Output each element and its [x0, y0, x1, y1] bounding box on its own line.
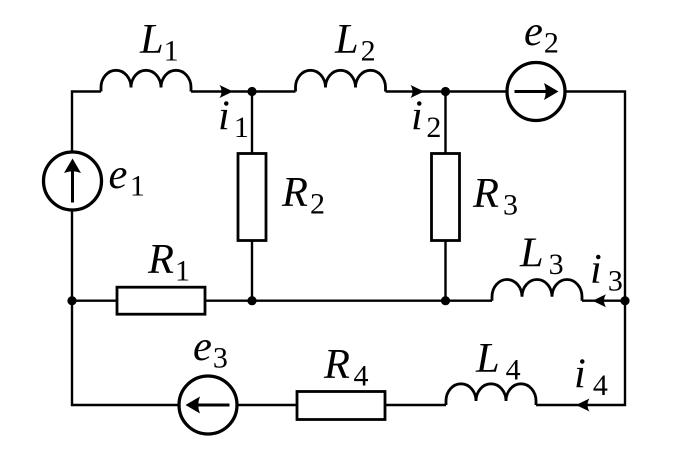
arrowhead i3: [593, 294, 607, 307]
inductor L2: [296, 70, 386, 91]
source e2 arrow: [515, 83, 559, 100]
node dot mid below R3: [441, 296, 450, 305]
wire: R3 branch lower: [444, 241, 446, 301]
inductor L4: [446, 384, 536, 405]
wire top: left corner to L1: [72, 92, 101, 153]
node dot mid-left: [67, 296, 76, 305]
wire: L2 to node B: [386, 90, 446, 92]
source e3 circle: [179, 376, 237, 434]
wire: R4 to L4: [385, 404, 446, 406]
wire: L1 to node A: [191, 90, 252, 92]
node dot top A: [247, 87, 256, 96]
wire: R1 to L3: [205, 300, 492, 302]
inductor L3: [492, 280, 582, 301]
wire: node A to L2: [252, 90, 296, 92]
inductor L1: [101, 70, 191, 91]
wire: node B to e2: [446, 90, 508, 92]
wire: L3 to right vertical: [582, 300, 625, 302]
arrowhead i2: [411, 85, 425, 98]
node dot mid-right: [620, 296, 629, 305]
resistor R1: [117, 287, 205, 314]
source e1 arrow: [64, 159, 81, 203]
resistor R3: [432, 154, 460, 241]
wire: e2 to top-right corner, right vertical, to bottom-right corner: [536, 92, 625, 406]
resistor R2: [238, 154, 266, 241]
wire: middle left node to R1: [72, 300, 117, 302]
arrowhead i1: [220, 85, 234, 98]
wire: R2 branch upper: [251, 92, 253, 154]
resistor R4: [297, 392, 385, 420]
source e3 arrow: [186, 397, 230, 414]
wire: R3 branch upper: [444, 92, 446, 154]
wire: R2 branch lower: [251, 241, 253, 301]
node dot top B: [441, 87, 450, 96]
source e1 circle: [44, 152, 102, 210]
arrowhead i4: [576, 399, 590, 412]
wire left vertical bottom to bottom-left corner: [72, 210, 179, 405]
wire: e3 to R4: [237, 404, 297, 406]
node dot mid below R2: [247, 296, 256, 305]
source e2 circle: [507, 63, 565, 121]
